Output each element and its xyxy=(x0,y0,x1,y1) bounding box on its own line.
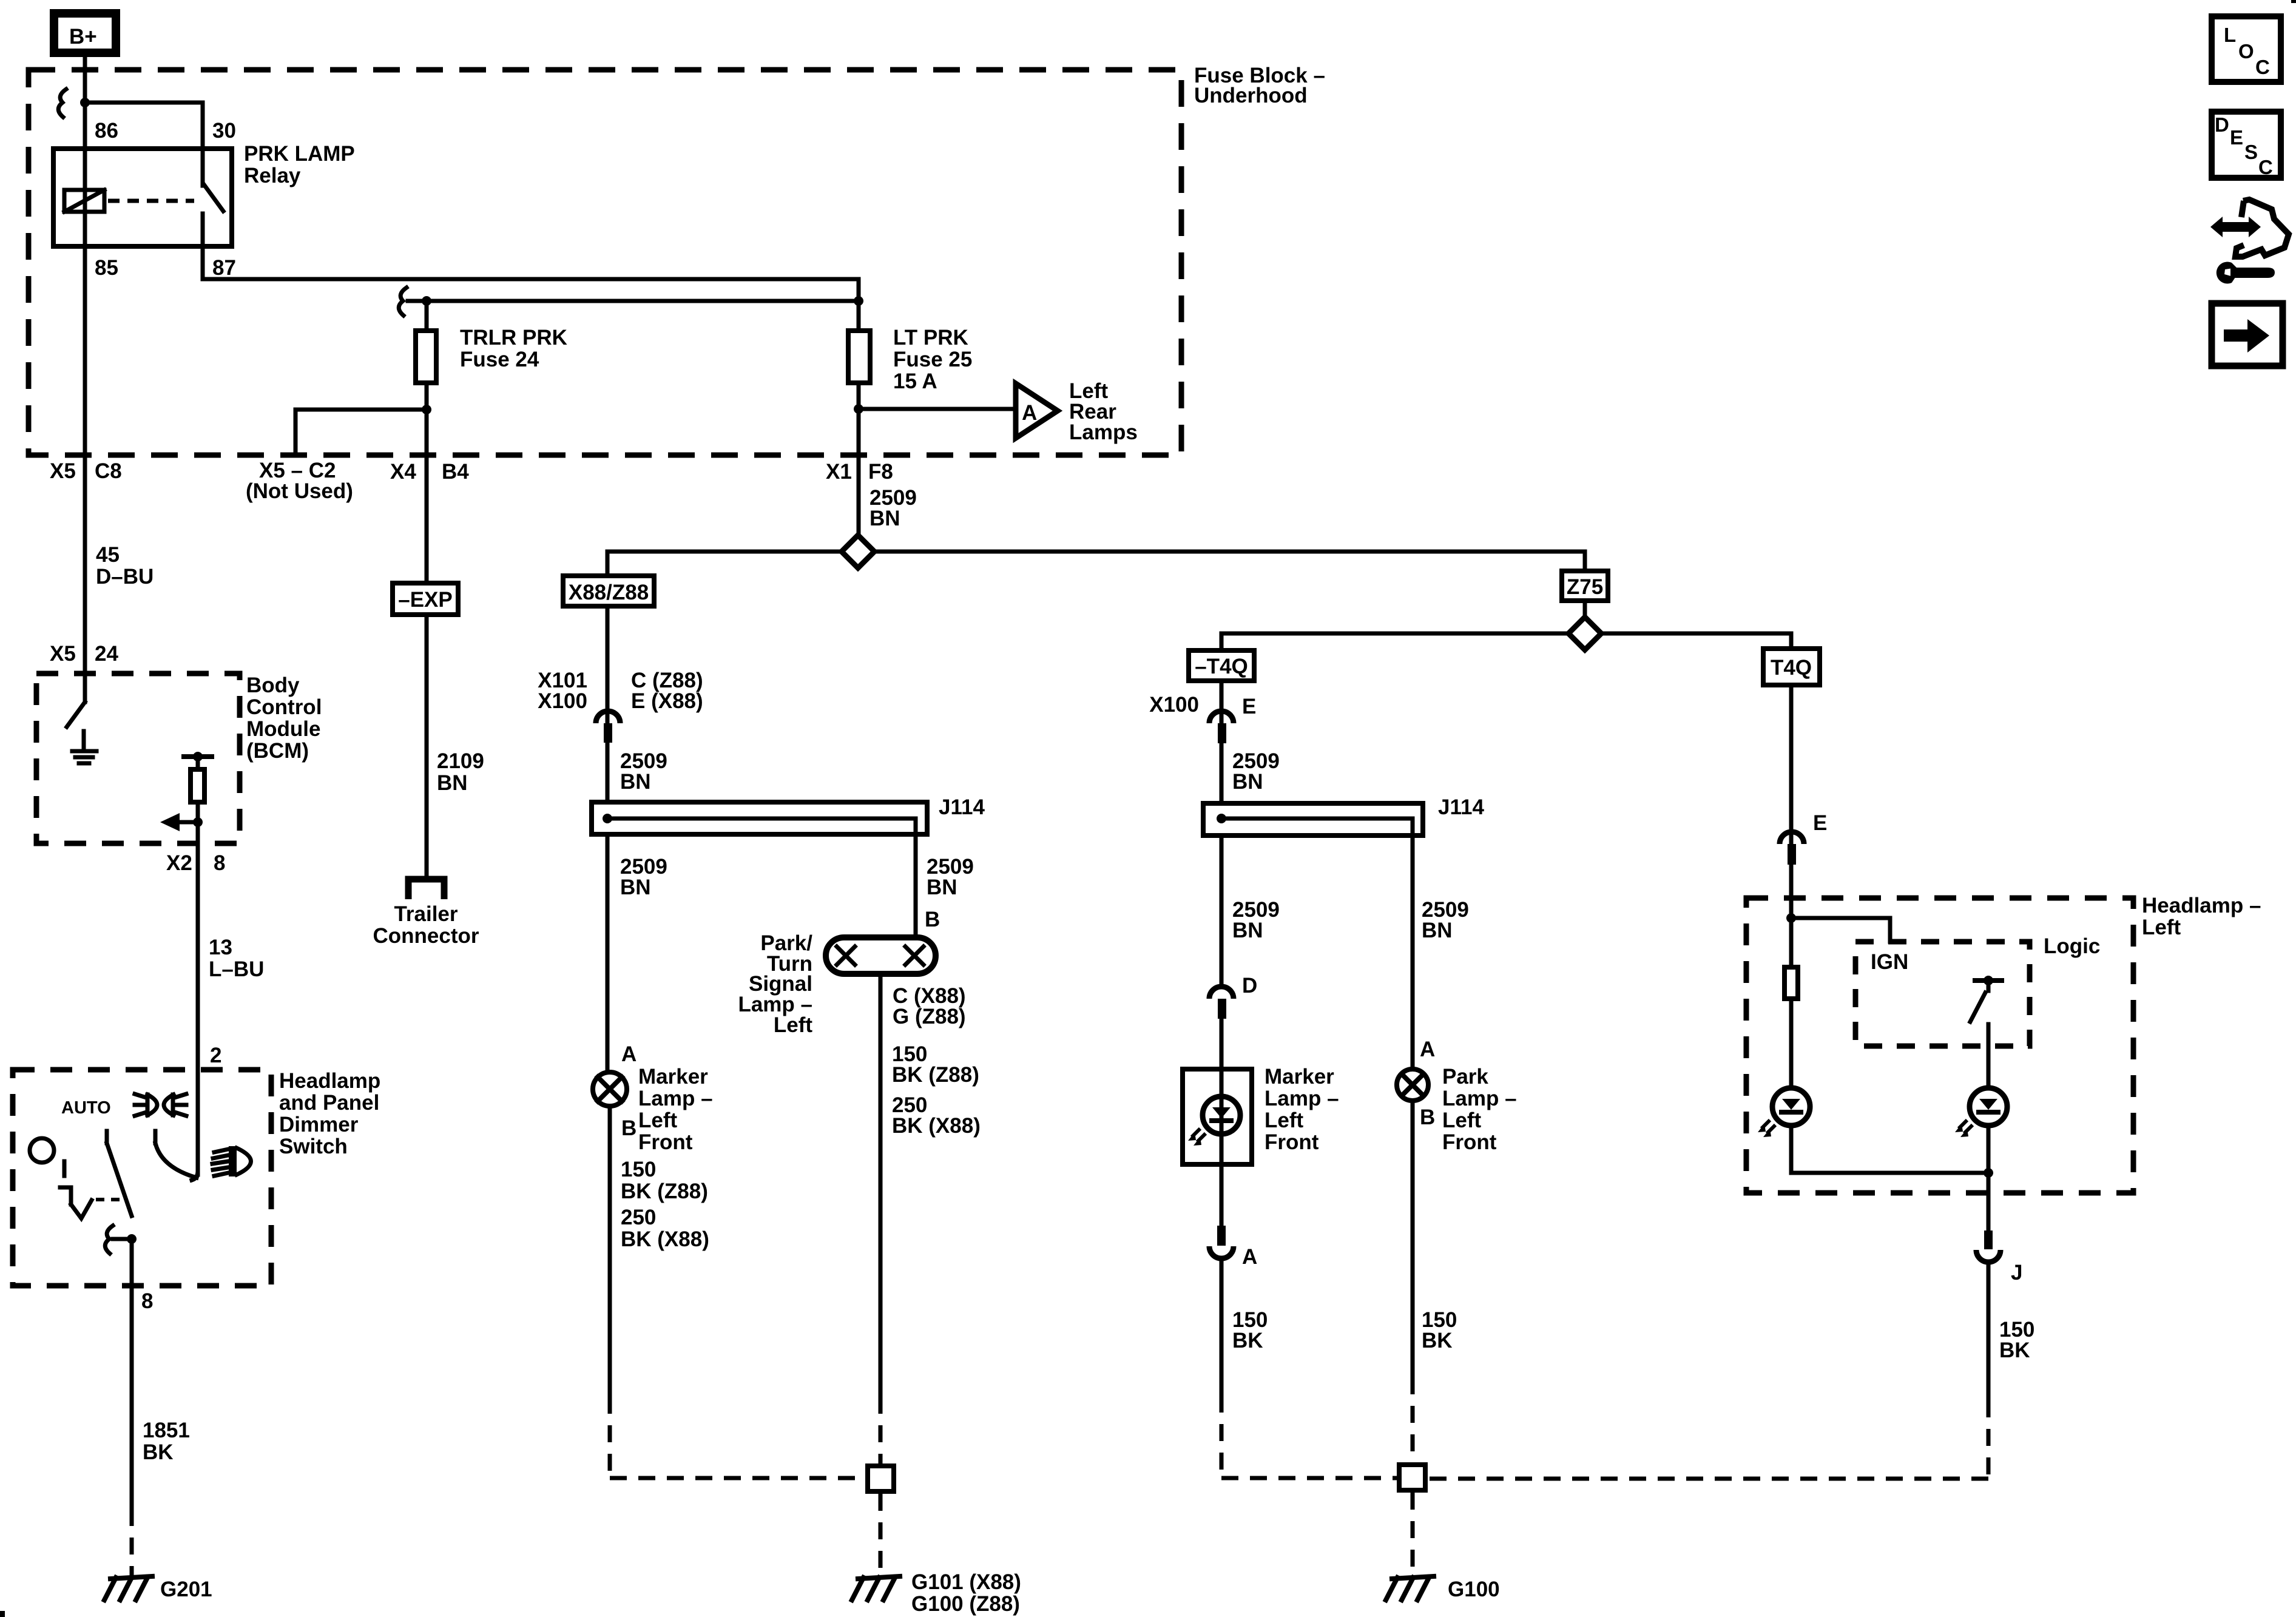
svg-text:BK (Z88): BK (Z88) xyxy=(892,1063,979,1087)
off position circle xyxy=(30,1138,54,1163)
svg-text:Switch: Switch xyxy=(279,1135,348,1158)
svg-text:Connector: Connector xyxy=(373,924,479,948)
svg-text:BK: BK xyxy=(1999,1338,2030,1362)
inline connector D xyxy=(1209,987,1234,1019)
off contact mark xyxy=(60,1161,126,1218)
svg-text:30: 30 xyxy=(212,119,236,143)
headlamp LED right xyxy=(1955,1088,2007,1137)
wire Z75 to diamond xyxy=(1583,603,1587,615)
wire park/turn to splice xyxy=(879,977,883,1397)
node B+ xyxy=(54,13,116,53)
wire fuse24 bottom xyxy=(425,385,429,581)
off-page triangle A: Left Rear Lamps xyxy=(1016,379,1138,444)
svg-text:BK: BK xyxy=(1422,1329,1453,1352)
svg-text:250: 250 xyxy=(621,1206,656,1229)
wire D to marker LED xyxy=(1220,1019,1224,1067)
svg-text:E: E xyxy=(1813,811,1827,835)
wire 2509 BN to J114 xyxy=(606,743,610,800)
BCM internal ground xyxy=(72,731,96,763)
dashed wire marker lamp to splice xyxy=(610,1397,865,1478)
wire inside J114 xyxy=(607,819,916,837)
inline connector J xyxy=(1976,1230,2001,1262)
svg-text:85: 85 xyxy=(95,256,118,280)
svg-text:8: 8 xyxy=(214,851,225,875)
dashed wire headlamp to splice xyxy=(1428,1400,1988,1479)
ground splice block left xyxy=(868,1466,894,1491)
svg-text:Relay: Relay xyxy=(244,164,301,187)
svg-text:8: 8 xyxy=(141,1289,153,1313)
wire LEDs to common xyxy=(1791,1127,1988,1173)
svg-text:BN: BN xyxy=(620,770,651,794)
svg-text:X2: X2 xyxy=(166,851,192,875)
switch output junction xyxy=(113,1234,137,1244)
svg-text:BN: BN xyxy=(1232,770,1263,794)
svg-text:BN: BN xyxy=(927,876,957,899)
svg-text:D: D xyxy=(1242,974,1257,998)
fuse F24: TRLR PRK Fuse 24 xyxy=(416,326,567,383)
BCM sense resistor xyxy=(184,752,212,843)
relay coil-contact dashed link xyxy=(108,199,194,203)
svg-text:Left: Left xyxy=(638,1109,678,1132)
svg-text:15 A: 15 A xyxy=(893,370,937,393)
svg-text:X4: X4 xyxy=(390,460,416,484)
svg-text:87: 87 xyxy=(212,256,236,280)
junction dot fuse 24 xyxy=(422,296,431,306)
wire to logic IGN xyxy=(1791,918,1890,942)
headlamp icon xyxy=(212,1146,251,1176)
svg-text:(BCM): (BCM) xyxy=(246,739,309,763)
svg-text:BN: BN xyxy=(1422,919,1453,942)
svg-text:IGN: IGN xyxy=(1871,950,1908,974)
wire T4Q down xyxy=(1789,687,1794,844)
svg-text:Marker: Marker xyxy=(1264,1065,1334,1089)
svg-text:Fuse 25: Fuse 25 xyxy=(893,348,972,371)
svg-text:Z75: Z75 xyxy=(1567,575,1603,599)
svg-text:Left: Left xyxy=(2142,916,2181,939)
wire J114 to park/turn lamp xyxy=(914,837,918,934)
wire 150 BK to splice xyxy=(1220,1261,1224,1396)
icon box DESC xyxy=(2212,112,2281,178)
junction dot pin 86 feed xyxy=(80,98,90,107)
svg-text:X5: X5 xyxy=(50,642,76,666)
auto blade to output xyxy=(107,1143,132,1216)
svg-text:–EXP: –EXP xyxy=(398,588,453,612)
svg-text:A: A xyxy=(621,1042,636,1066)
connector T4Q xyxy=(1763,649,1820,685)
dashed wire to G100 xyxy=(1411,1493,1415,1576)
svg-text:Fuse 24: Fuse 24 xyxy=(460,348,539,371)
wire to relay pin 30 xyxy=(85,103,203,146)
svg-text:Marker: Marker xyxy=(638,1065,708,1089)
svg-text:Trailer: Trailer xyxy=(394,902,458,926)
marker lamp left front xyxy=(593,1065,713,1154)
svg-text:86: 86 xyxy=(95,119,118,143)
dashed wire to G201 xyxy=(130,1509,134,1576)
wire switch to G201 xyxy=(130,1239,134,1509)
svg-text:Control: Control xyxy=(246,695,322,719)
junction dot fuse 25 xyxy=(854,296,863,306)
dashed wire to ground xyxy=(879,1494,883,1576)
svg-text:C: C xyxy=(2255,56,2270,78)
wire diamond to Z75 xyxy=(873,552,1585,569)
svg-text:Logic: Logic xyxy=(2044,934,2100,958)
wire 150 BK / 250 BK labels xyxy=(621,1158,709,1251)
svg-text:D: D xyxy=(2215,113,2229,136)
svg-text:D–BU: D–BU xyxy=(96,565,154,589)
icon box forward arrow xyxy=(2212,303,2283,366)
svg-text:X1: X1 xyxy=(826,460,852,484)
wire fuse24 top xyxy=(425,301,429,328)
splice hook at B+ junction xyxy=(58,89,66,117)
dashed wire park/turn to splice xyxy=(879,1397,883,1463)
marker lamp LED left front xyxy=(1183,1065,1339,1167)
body control module dashed box xyxy=(36,673,322,843)
wire diamond to T4Q xyxy=(1600,633,1791,646)
svg-text:and Panel: and Panel xyxy=(279,1091,379,1115)
corner scan marks xyxy=(0,1611,5,1617)
svg-text:2: 2 xyxy=(210,1044,221,1067)
svg-text:Lamps: Lamps xyxy=(1069,420,1138,444)
svg-text:Park: Park xyxy=(1442,1065,1488,1089)
wire 2109 BN xyxy=(425,617,429,879)
wire 2509 BN label left xyxy=(620,855,667,899)
svg-text:G100 (Z88): G100 (Z88) xyxy=(911,1592,1020,1616)
relay contact 87 xyxy=(201,214,205,249)
svg-text:Headlamp: Headlamp xyxy=(279,1069,380,1093)
svg-text:F8: F8 xyxy=(868,460,893,484)
svg-text:BK: BK xyxy=(143,1440,174,1464)
splice diamond Z75 xyxy=(1568,617,1601,650)
svg-text:Module: Module xyxy=(246,717,320,741)
inline connector A xyxy=(1209,1226,1234,1258)
park lamp left front xyxy=(1397,1065,1517,1154)
inline connector E xyxy=(1209,711,1234,743)
svg-text:G (Z88): G (Z88) xyxy=(893,1005,966,1028)
svg-text:L: L xyxy=(2224,24,2236,46)
wire diamond to X88/Z88 branch xyxy=(607,552,843,573)
svg-text:J114: J114 xyxy=(1438,795,1484,819)
wire pin 87 to fuses xyxy=(203,249,859,328)
svg-text:BK: BK xyxy=(1232,1329,1263,1352)
wire E to headlamp xyxy=(1789,865,1794,965)
ground splice block right xyxy=(1399,1465,1425,1490)
svg-text:X88/Z88: X88/Z88 xyxy=(569,581,649,604)
svg-text:A: A xyxy=(1420,1038,1435,1061)
svg-text:Left: Left xyxy=(774,1013,813,1037)
park lamps icon xyxy=(135,1094,186,1116)
svg-text:2109: 2109 xyxy=(437,749,484,773)
BCM switch blade xyxy=(67,702,85,727)
wire 2509 BN to J114 right xyxy=(1220,743,1224,801)
fuse F25: LT PRK Fuse 25 15A xyxy=(848,326,972,393)
ground G101/G100 xyxy=(852,1570,1021,1616)
svg-text:BN: BN xyxy=(1232,919,1263,942)
icon service arrow and wrench xyxy=(2210,200,2289,284)
wire -T4Q down xyxy=(1220,683,1224,723)
relay blade xyxy=(204,184,223,211)
svg-text:Headlamp –: Headlamp – xyxy=(2142,894,2261,917)
ground G201 xyxy=(104,1576,212,1601)
junction dot below fuse 25 xyxy=(854,404,863,414)
svg-text:Lamp –: Lamp – xyxy=(1264,1087,1339,1110)
wire 2509 BN labels below J114 right xyxy=(1232,898,1280,942)
wire J114 to marker lamp xyxy=(606,837,610,1070)
svg-text:24: 24 xyxy=(95,642,118,666)
relay contact 30 xyxy=(201,146,205,186)
svg-text:AUTO: AUTO xyxy=(61,1098,111,1118)
svg-text:B4: B4 xyxy=(442,460,469,484)
headlamp left dashed box xyxy=(1746,894,2261,1193)
svg-text:A: A xyxy=(1022,401,1037,425)
svg-text:Left: Left xyxy=(1264,1109,1304,1132)
svg-text:Underhood: Underhood xyxy=(1194,84,1308,107)
svg-text:C: C xyxy=(2258,156,2273,178)
svg-text:13: 13 xyxy=(209,936,232,959)
svg-text:1851: 1851 xyxy=(143,1419,190,1442)
wire J114 to park lamp xyxy=(1411,838,1415,1067)
svg-text:PRK LAMP: PRK LAMP xyxy=(244,142,355,166)
wire park lamp down xyxy=(1411,1103,1415,1377)
headlamp resistor xyxy=(1784,967,1798,1087)
wire X88 branch down xyxy=(606,609,610,723)
svg-text:Left: Left xyxy=(1442,1109,1482,1132)
logic dashed box xyxy=(1855,934,2100,1046)
fuse block underhood dashed box xyxy=(29,64,1325,455)
svg-text:150: 150 xyxy=(621,1158,656,1181)
wire 150 BK headlamp xyxy=(1987,1264,1991,1400)
BCM output node xyxy=(193,817,203,827)
icon box LOC xyxy=(2212,16,2281,82)
svg-text:X100: X100 xyxy=(1149,693,1199,717)
wire B+ to relay coil and BCM xyxy=(83,57,87,702)
stub X5-C2 not used xyxy=(295,410,427,453)
svg-text:LT PRK: LT PRK xyxy=(893,326,968,349)
splice pack J114 left xyxy=(592,795,985,834)
svg-text:L–BU: L–BU xyxy=(209,957,264,981)
relay K: PRK LAMP Relay box xyxy=(53,142,355,246)
svg-text:B: B xyxy=(1420,1106,1435,1129)
switch common wire tip xyxy=(192,1171,198,1180)
wire feed to fuse 24 xyxy=(408,299,859,303)
svg-text:A: A xyxy=(1242,1245,1257,1269)
svg-text:G101 (X88): G101 (X88) xyxy=(911,1570,1021,1594)
svg-text:J114: J114 xyxy=(939,795,985,819)
svg-text:Dimmer: Dimmer xyxy=(279,1113,359,1136)
svg-text:B+: B+ xyxy=(69,25,97,49)
svg-text:45: 45 xyxy=(96,543,120,567)
junction dot below fuse 24 xyxy=(422,405,431,414)
svg-text:Front: Front xyxy=(1442,1130,1497,1154)
svg-text:G100: G100 xyxy=(1448,1578,1500,1601)
svg-text:BN: BN xyxy=(869,507,900,530)
svg-text:B: B xyxy=(621,1116,636,1140)
svg-text:X5: X5 xyxy=(50,459,76,483)
park position contact xyxy=(154,1131,158,1143)
splice hook at fuse 24 feed xyxy=(399,288,407,316)
svg-text:X100: X100 xyxy=(538,689,587,713)
svg-text:B: B xyxy=(925,908,940,931)
wire fuse25 bottom xyxy=(857,385,861,533)
svg-text:Front: Front xyxy=(638,1130,693,1154)
inline connector E headlamp xyxy=(1780,832,1804,865)
BCM signal arrow xyxy=(160,813,198,831)
junction dot in J114 xyxy=(603,814,612,823)
svg-text:E: E xyxy=(2230,126,2243,149)
wire to left rear lamps xyxy=(859,407,1015,411)
svg-text:E: E xyxy=(1242,695,1256,718)
wire 2509 BN label right xyxy=(927,855,974,899)
svg-text:TRLR PRK: TRLR PRK xyxy=(460,326,567,349)
splice pack J114 right xyxy=(1203,795,1484,836)
junction dot headlamp feed xyxy=(1786,913,1796,923)
park blade xyxy=(155,1143,197,1178)
dashed wire park lamp to splice xyxy=(1411,1377,1415,1462)
headlamp and panel dimmer switch dashed box xyxy=(13,1069,380,1286)
auto position contact xyxy=(105,1131,109,1143)
svg-text:S: S xyxy=(2244,141,2258,163)
wire 150 BK / 250 BK labels xyxy=(892,1042,981,1138)
svg-text:O: O xyxy=(2238,40,2254,62)
splice hook at switch output xyxy=(105,1226,113,1254)
svg-text:Lamp –: Lamp – xyxy=(638,1087,713,1110)
connector X88/Z88 xyxy=(563,576,654,606)
svg-text:BN: BN xyxy=(437,771,468,795)
svg-text:BN: BN xyxy=(620,876,651,899)
headlamp LED left xyxy=(1758,1088,1810,1137)
svg-text:BK (X88): BK (X88) xyxy=(621,1227,709,1251)
dashed wire marker LED to splice xyxy=(1221,1396,1397,1478)
connector Z75 xyxy=(1562,571,1608,601)
wire marker lamp down xyxy=(608,1109,612,1397)
svg-text:G201: G201 xyxy=(160,1578,212,1601)
relay coil xyxy=(64,190,104,212)
ground G100 xyxy=(1386,1576,1500,1601)
svg-text:Lamp –: Lamp – xyxy=(1442,1087,1517,1110)
inline connector C/E xyxy=(596,711,620,743)
junction dot in J114 right xyxy=(1217,814,1226,823)
svg-text:Front: Front xyxy=(1264,1130,1319,1154)
svg-text:Body: Body xyxy=(246,673,300,697)
wire diamond to -T4Q xyxy=(1221,633,1570,648)
wire inside J114 right xyxy=(1221,819,1413,838)
logic switch xyxy=(1970,976,2002,1087)
svg-text:BK (X88): BK (X88) xyxy=(892,1114,981,1138)
svg-text:C8: C8 xyxy=(95,459,122,483)
junction dot headlamp common xyxy=(1984,1168,1993,1178)
wire J114 to marker LED xyxy=(1220,838,1224,985)
trailer connector symbol xyxy=(373,879,479,948)
svg-text:–T4Q: –T4Q xyxy=(1195,655,1248,678)
wire BCM to switch xyxy=(196,843,200,1175)
splice diamond on X1 feed xyxy=(842,535,874,568)
svg-text:(Not Used): (Not Used) xyxy=(246,479,353,503)
connector -EXP xyxy=(393,583,458,615)
wire marker LED down xyxy=(1220,1167,1224,1226)
svg-text:T4Q: T4Q xyxy=(1771,656,1812,680)
svg-text:E (X88): E (X88) xyxy=(631,689,703,713)
svg-text:J: J xyxy=(2011,1261,2022,1284)
connector -T4Q xyxy=(1189,650,1254,681)
svg-text:BK (Z88): BK (Z88) xyxy=(621,1180,708,1203)
park/turn signal lamp left xyxy=(738,931,936,1037)
